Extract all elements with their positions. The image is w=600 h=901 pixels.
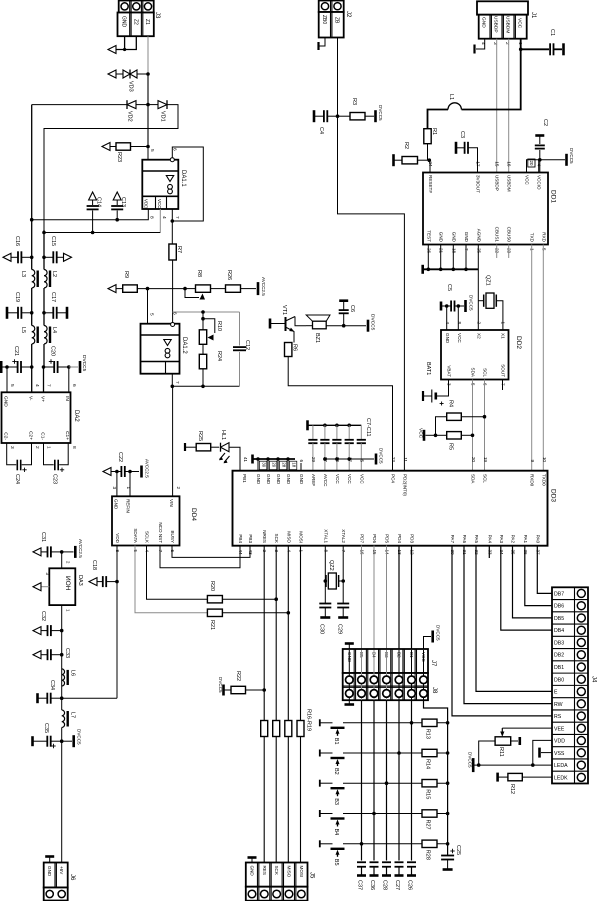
wire C5 to DD2 GND pin [445, 304, 449, 308]
svg-text:C17: C17 [50, 292, 56, 302]
svg-text:DA1.2: DA1.2 [181, 337, 187, 354]
svg-text:5: 5 [149, 313, 155, 316]
node button B5 to column [360, 842, 364, 846]
resistors R16-R19 [261, 721, 268, 737]
svg-text:GND: GND [266, 474, 271, 485]
capacitor C24 loop [7, 443, 17, 465]
svg-text:5: 5 [9, 384, 15, 387]
svg-text:27: 27 [323, 457, 328, 463]
inductor L2 [44, 270, 47, 289]
svg-text:R4: R4 [448, 400, 454, 407]
wire USBDP to DD1 [496, 39, 498, 173]
wire J1 VCC via L1 [462, 39, 521, 110]
push button B1 [319, 719, 321, 726]
wire DD4 BUSY to DD3 PB3 [172, 546, 250, 558]
power rail AVCC2.5 at R26 [257, 282, 260, 295]
svg-text:DD3: DD3 [550, 489, 557, 502]
svg-text:C30: C30 [319, 624, 325, 634]
svg-text:DB7: DB7 [554, 591, 564, 597]
wire DA1.2 out to DD4 VIN [172, 386, 174, 496]
svg-text:C26: C26 [407, 880, 413, 890]
svg-text:38: 38 [335, 457, 340, 463]
svg-text:L5: L5 [20, 327, 26, 333]
svg-text:7: 7 [46, 384, 52, 387]
svg-text:1: 1 [126, 486, 131, 489]
svg-text:C5: C5 [446, 284, 452, 291]
svg-text:X1: X1 [501, 333, 506, 339]
svg-text:TXD0: TXD0 [541, 474, 546, 486]
resistor R2 [392, 154, 395, 166]
wire left rail A [31, 105, 33, 270]
svg-text:PA0: PA0 [535, 535, 540, 544]
power rail DVCC5 at J7 VCC [424, 637, 432, 650]
wire DA1.1 pin7 to R7 [171, 209, 173, 244]
svg-text:R13: R13 [425, 729, 431, 739]
svg-text:CBUS0: CBUS0 [507, 227, 512, 243]
svg-text:R26: R26 [226, 270, 232, 280]
wire SDA down [472, 380, 474, 471]
svg-text:1: 1 [46, 446, 52, 449]
svg-text:VDD: VDD [144, 199, 149, 209]
suppressor diode VD3 [137, 73, 148, 75]
capacitor C18 [89, 578, 97, 586]
svg-text:DA2: DA2 [73, 410, 79, 422]
voltage reference DA3 [49, 568, 75, 605]
power rail AVCC2.5 at C22 [140, 466, 143, 478]
svg-text:MOSI: MOSI [299, 531, 304, 543]
wire DA1.1 pin5 [147, 147, 149, 160]
svg-text:PD3: PD3 [410, 534, 415, 543]
svg-text:SCL: SCL [483, 474, 488, 483]
svg-text:MOSI: MOSI [299, 866, 304, 878]
svg-text:GND: GND [3, 396, 9, 407]
svg-text:DVCC5: DVCC5 [378, 105, 383, 121]
svg-text:PA6: PA6 [462, 535, 467, 544]
svg-text:B4: B4 [333, 829, 339, 836]
svg-text:RXD0: RXD0 [530, 474, 535, 487]
svg-text:B2: B2 [333, 768, 339, 775]
resistor R27 [422, 810, 437, 817]
svg-text:R11: R11 [498, 747, 504, 757]
svg-text:C36: C36 [369, 880, 375, 890]
svg-text:PA5: PA5 [474, 535, 479, 544]
svg-text:DVCC5: DVCC5 [468, 752, 473, 768]
wire VT1 collector to BZ1 [295, 317, 306, 326]
svg-text:L4: L4 [51, 327, 57, 333]
svg-text:R20: R20 [209, 581, 215, 591]
svg-text:5: 5 [360, 459, 365, 462]
svg-text:QZ2: QZ2 [328, 560, 334, 571]
node button B4 to column [372, 812, 376, 816]
svg-text:R22: R22 [235, 671, 241, 681]
svg-text:8: 8 [71, 446, 77, 449]
inductor L1 [448, 103, 461, 110]
wire DD3 SCK to J5 [275, 546, 277, 721]
svg-text:RW: RW [554, 702, 563, 708]
svg-text:DVCC5: DVCC5 [469, 295, 474, 311]
svg-text:XTAL1: XTAL1 [323, 529, 328, 543]
power rail DVCC5 at C20 [69, 366, 78, 368]
svg-text:VCC: VCC [347, 474, 352, 484]
ground stub J2 pin1 [319, 38, 326, 47]
resistor R3 [338, 115, 351, 117]
capacitor C21 polarized [0, 361, 3, 373]
ground arrow J3 [108, 46, 116, 54]
wire VDD branch [531, 763, 535, 767]
svg-text:V-: V- [28, 396, 34, 401]
trimmer R8 [183, 287, 187, 291]
resistor R1 [424, 129, 431, 144]
capacitor C1 [521, 48, 549, 50]
capacitor C33 [33, 651, 41, 659]
svg-text:C7-C11: C7-C11 [365, 418, 371, 437]
wire DD1 VCCIO stub [538, 160, 540, 173]
svg-text:C14: C14 [96, 197, 102, 207]
wire SCL down [484, 380, 486, 471]
svg-text:C34: C34 [49, 680, 55, 690]
resistor R5 [447, 432, 462, 439]
svg-text:PB3: PB3 [248, 534, 253, 543]
ground stub J5 GND [251, 859, 253, 863]
svg-text:C24: C24 [14, 474, 20, 484]
stub CBUS0 [508, 245, 510, 259]
connector J5 [246, 863, 308, 887]
svg-text:DB1: DB1 [554, 665, 564, 671]
svg-text:R28: R28 [425, 850, 431, 860]
svg-text:ИОН: ИОН [64, 576, 71, 591]
svg-text:VDD: VDD [115, 533, 120, 543]
capacitor C17 [44, 312, 53, 314]
stub SOUT [502, 380, 504, 391]
wire J3 pin1 GND to arrow [116, 36, 125, 49]
connector J1 [477, 1, 528, 14]
svg-text:J6: J6 [69, 874, 75, 881]
svg-text:LEDA: LEDA [554, 763, 568, 769]
svg-text:PB1: PB1 [242, 474, 247, 483]
svg-text:3: 3 [9, 446, 15, 449]
inductor L6 [62, 669, 65, 686]
wire DD4 SDATA via R21 to MISO [135, 546, 207, 613]
svg-text:C12: C12 [244, 340, 250, 350]
op-amp DA1.2 [141, 324, 180, 374]
resistor R15 [422, 780, 437, 787]
wire DD4 VDD down [116, 546, 118, 699]
svg-text:3: 3 [112, 486, 117, 489]
svg-text:R25: R25 [197, 431, 203, 441]
power rail DVCC5 at R3 [374, 110, 377, 122]
push button B2 [319, 750, 321, 757]
crystal QZ2 [328, 573, 336, 589]
ground stub below J8 [348, 700, 350, 703]
svg-text:BAT1: BAT1 [425, 362, 431, 375]
svg-text:+6V: +6V [59, 866, 64, 875]
stub CBUS1 [496, 245, 498, 259]
ground stub VSS [541, 752, 552, 754]
svg-text:SDA: SDA [471, 474, 476, 484]
svg-text:23: 23 [391, 457, 396, 463]
resistor R23 [102, 143, 110, 151]
svg-text:AREF: AREF [311, 474, 316, 486]
resistor R6 [285, 343, 292, 357]
svg-text:VCC: VCC [418, 428, 424, 439]
connector J8 grid [343, 673, 428, 700]
wire HL1 to DD3 PB1 [229, 447, 240, 471]
capacitor C15 [44, 256, 53, 258]
capacitor C13 [113, 192, 121, 200]
capacitor C5 [440, 302, 443, 311]
svg-text:C21: C21 [13, 346, 19, 356]
wire DD3 PD4 to J7 [398, 546, 400, 650]
svg-text:C32: C32 [40, 611, 46, 621]
svg-text:VSS: VSS [554, 751, 565, 757]
op-amp IC DA2 [2, 392, 71, 443]
wire AGND pin down to DD2 X2 [477, 245, 479, 331]
wire to J6 [61, 741, 63, 862]
svg-text:DVCC5: DVCC5 [569, 148, 574, 164]
svg-text:PD4: PD4 [397, 534, 402, 543]
wire RESET to DD1 [429, 160, 431, 172]
svg-text:GND: GND [439, 232, 444, 243]
svg-text:AVCC2.5: AVCC2.5 [261, 277, 266, 296]
wire DD3 PD7 to J7 [361, 546, 363, 650]
wire DD3 NRES to J5 [263, 546, 265, 721]
svg-text:11: 11 [403, 457, 408, 462]
push button B5 [319, 840, 321, 847]
connector J3 [119, 1, 154, 13]
svg-text:SDATA: SDATA [133, 528, 138, 544]
power rail AVCC2.5 at C31 [62, 551, 74, 553]
svg-text:GND: GND [445, 333, 450, 344]
svg-text:17: 17 [476, 161, 481, 167]
svg-text:GND: GND [481, 17, 487, 28]
wire PA7 to RS [452, 546, 552, 716]
wire AVCC to DD4 REFIN [129, 472, 131, 497]
resistor R14 [422, 749, 437, 756]
svg-text:VCC: VCC [457, 333, 462, 343]
svg-text:VD3: VD3 [128, 81, 134, 92]
wire DA2 IN pin6 [68, 367, 70, 392]
svg-text:B1: B1 [333, 738, 339, 745]
svg-text:REFIN: REFIN [126, 499, 131, 513]
svg-text:PA7: PA7 [450, 535, 455, 544]
svg-text:DVCC5: DVCC5 [81, 355, 87, 372]
svg-text:20: 20 [471, 457, 476, 463]
capacitor C32 [33, 627, 41, 635]
capacitor C14 [89, 192, 97, 200]
svg-text:C6: C6 [349, 305, 355, 312]
buzzer BZ1 [313, 321, 327, 329]
svg-text:10: 10 [542, 457, 547, 463]
svg-text:R8: R8 [196, 270, 202, 277]
wire DA1.2 pin5 [147, 289, 149, 324]
svg-text:R10: R10 [216, 321, 222, 331]
wire R7 to DA1.2 pin6 [172, 260, 174, 323]
wire USBDM to DD1 [508, 39, 510, 173]
capacitor C25 polarized [450, 850, 454, 852]
svg-text:VCC: VCC [525, 175, 530, 185]
svg-text:C2+: C2+ [28, 431, 34, 440]
wire column segments through J7/J8 [348, 650, 350, 700]
wire DD3 gnd pin [277, 459, 279, 471]
svg-text:VCC: VCC [359, 474, 364, 484]
resistor R4 [447, 413, 462, 420]
transistor VT1 [269, 319, 272, 329]
svg-text:C27: C27 [394, 880, 400, 890]
wire J2 ZB to DD3 pin11 [338, 38, 405, 471]
wire DVCC5 to DD2 VCC pin [457, 304, 461, 308]
svg-text:R6: R6 [292, 344, 298, 351]
wire DA3 out down [61, 605, 63, 698]
svg-text:VDD: VDD [554, 739, 565, 745]
wire VCC col to pullup rail [424, 700, 448, 855]
svg-text:15: 15 [495, 161, 500, 167]
svg-text:R14: R14 [425, 759, 431, 769]
svg-text:XTAL2: XTAL2 [341, 529, 346, 543]
diode VD2 [136, 104, 148, 106]
wire PA0 to DB7 [537, 546, 552, 594]
wire DD1 gnd pin [440, 245, 442, 270]
resistor R9 [108, 285, 116, 293]
svg-text:C15: C15 [50, 236, 56, 246]
node button B1 to column [410, 721, 414, 725]
svg-text:7: 7 [174, 216, 180, 219]
svg-text:C2-: C2- [3, 432, 9, 440]
svg-text:ZB: ZB [334, 17, 340, 24]
svg-text:20: 20 [271, 462, 276, 467]
resistor R28 [422, 840, 437, 847]
capacitor C31 [33, 548, 41, 556]
svg-text:L1: L1 [448, 94, 454, 100]
power rail DVCC5 at C35 [62, 740, 72, 742]
svg-text:C3: C3 [459, 131, 465, 138]
svg-text:PB4: PB4 [238, 534, 243, 543]
svg-text:DVCC5: DVCC5 [77, 729, 82, 745]
svg-text:5: 5 [149, 149, 155, 152]
svg-text:DB5: DB5 [554, 616, 564, 622]
svg-text:PA4: PA4 [487, 535, 492, 544]
battery BAT1 [437, 380, 449, 397]
wire PA1 to DB6 [525, 546, 552, 606]
IC DD3 [233, 471, 548, 546]
node C1 tap [519, 48, 523, 52]
connector J2 [319, 1, 344, 13]
diode VD1 [148, 104, 158, 106]
wire DA1.1 pin4 to rail line [159, 209, 161, 233]
svg-text:R23: R23 [116, 152, 122, 162]
svg-text:C31: C31 [40, 532, 46, 542]
pin numbers DD3 gnd boxed [259, 461, 266, 469]
pin box DD1-20 [528, 159, 535, 167]
svg-text:PA1: PA1 [523, 535, 528, 544]
trimmer R10 [202, 312, 204, 330]
svg-text:24: 24 [428, 161, 433, 167]
svg-text:SCL: SCL [483, 368, 488, 377]
inductor L7 [61, 698, 63, 710]
svg-text:DVCC5: DVCC5 [436, 625, 441, 641]
svg-text:DD1: DD1 [550, 190, 557, 203]
wire C22 to DD4 GND [116, 472, 118, 497]
wire XTAL2 down [342, 546, 344, 604]
power rail DVCC5 at BZ1 [367, 320, 370, 332]
svg-text:C33: C33 [64, 648, 70, 658]
svg-text:RES: RES [262, 866, 267, 875]
capacitor bank C7-C11 top bus [306, 420, 309, 430]
ground bus DD3 top [251, 455, 254, 464]
svg-text:SCLK: SCLK [145, 531, 150, 544]
svg-text:28: 28 [281, 462, 286, 467]
svg-text:C18: C18 [91, 560, 97, 570]
svg-text:DA3: DA3 [77, 575, 83, 586]
svg-text:J4: J4 [591, 676, 597, 683]
svg-text:BZ1: BZ1 [314, 333, 320, 343]
svg-text:GND: GND [464, 232, 469, 243]
svg-text:VIN: VIN [169, 499, 174, 507]
wire DD3 PD3 to J7 [411, 546, 413, 650]
capacitor C35 [31, 736, 34, 746]
svg-text:R15: R15 [425, 789, 431, 799]
wire DD1 gnd pin [465, 245, 467, 270]
svg-text:6: 6 [71, 384, 77, 387]
svg-text:R21: R21 [209, 620, 215, 630]
svg-text:E: E [554, 690, 558, 696]
resistor R25 [184, 443, 186, 451]
svg-text:GND: GND [276, 474, 281, 485]
wire PA5 to E [476, 546, 552, 692]
svg-text:J1: J1 [530, 12, 536, 19]
resistor R24 [202, 344, 204, 354]
svg-text:GND: GND [286, 474, 291, 485]
capacitor C34 [36, 693, 39, 703]
svg-text:Z2: Z2 [132, 19, 138, 25]
svg-text:VCCIO: VCCIO [537, 175, 542, 190]
svg-text:V+: V+ [40, 396, 46, 402]
svg-text:RXD: RXD [541, 232, 546, 242]
wire button columns down [361, 700, 363, 860]
resistor R20 [207, 596, 222, 603]
svg-text:SCK: SCK [274, 534, 279, 544]
power rail DVCC5 LCD backlight [472, 758, 475, 772]
svg-text:J2: J2 [345, 11, 351, 18]
svg-text:C35: C35 [43, 723, 49, 733]
svg-text:NRES: NRES [262, 530, 267, 543]
svg-text:C2: C2 [542, 119, 548, 126]
crystal QZ1 [486, 293, 494, 308]
svg-text:R5: R5 [448, 443, 454, 450]
svg-text:GND: GND [451, 232, 456, 243]
svg-text:2: 2 [176, 486, 181, 489]
wire DA1.1 pin8 to rail line [32, 209, 149, 220]
svg-text:C1-: C1- [40, 432, 46, 440]
svg-text:R27: R27 [425, 820, 431, 830]
svg-text:GND: GND [256, 474, 261, 485]
svg-text:C23: C23 [52, 474, 58, 484]
wire PA2 to DB5 [513, 546, 553, 618]
wire DD3 MISO to J5 [287, 546, 289, 721]
svg-text:AVCC: AVCC [323, 474, 328, 487]
svg-text:AGND: AGND [476, 229, 481, 243]
svg-text:PD6: PD6 [372, 534, 377, 543]
svg-text:DB0: DB0 [554, 677, 564, 683]
svg-text:MISO: MISO [286, 866, 291, 878]
svg-text:B5: B5 [333, 859, 339, 866]
svg-text:C29: C29 [337, 624, 343, 634]
svg-text:J7: J7 [430, 660, 436, 667]
wire XTAL1 down [324, 546, 326, 604]
wire C34 node to DD4 VDD riser [62, 697, 117, 699]
svg-text:RS: RS [554, 714, 562, 720]
svg-text:VBAT: VBAT [447, 365, 452, 377]
svg-text:4: 4 [445, 321, 450, 324]
